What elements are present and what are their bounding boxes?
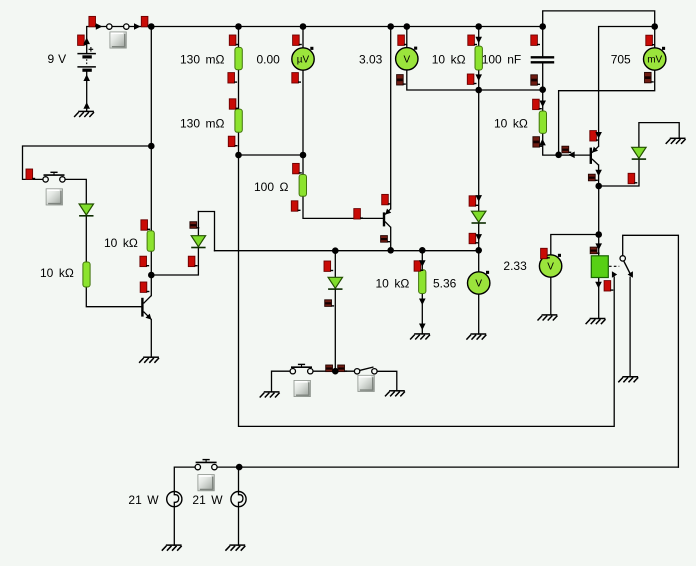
node: x=478.7 y=90	[475, 87, 482, 94]
wire: Q3 emitter down to node, loop right and up to diode D5	[599, 159, 639, 186]
transistor Q1 (NPN, bottom left)	[142, 296, 151, 320]
switch S5 contact b	[212, 464, 217, 469]
wire: bottom rail y=467 to right loop	[217, 466, 679, 468]
switch S4 (open toggle) lever	[359, 367, 373, 371]
red indicator (above R8)	[414, 261, 423, 271]
wire: Q2 emitter to bus	[390, 227, 392, 250]
wire: capacitor top feed	[542, 27, 544, 58]
svg-text:10 kΩ: 10 kΩ	[104, 236, 138, 250]
green load square (relay)	[591, 256, 608, 278]
red indicator (below R3)	[467, 74, 476, 84]
ground (lamp L2)	[225, 545, 245, 551]
current arrow (battery bottom)	[83, 74, 90, 81]
wire: top rail from battery to capacitor node	[87, 27, 543, 54]
wire: 100 ohm resistor down to Q2 base	[303, 155, 383, 218]
meter M1 microvoltmeter 0.00	[292, 47, 314, 70]
wire: microvoltmeter branch	[302, 27, 304, 156]
red indicator (diode D5 loop)	[628, 173, 637, 183]
red indicator (below D2)	[188, 256, 197, 266]
red indicator (below R1)	[228, 73, 237, 83]
wire: 5.36 resistor chain to ground	[421, 250, 423, 334]
svg-text:10 kΩ: 10 kΩ	[376, 276, 410, 290]
node: bottom switch junction	[332, 368, 339, 375]
wire: Q3 collector up to top-right node	[599, 27, 655, 147]
wire: green load square to ground	[598, 277, 600, 318]
switch S3 contact a	[290, 369, 295, 374]
ground (Q1 emitter)	[139, 357, 159, 363]
current arrow (Q3 collector top)	[595, 132, 602, 139]
ground (diode D5 loop)	[666, 138, 686, 144]
wire: long vertical x=238.5 down, across bottom, up to SPDT left contact	[239, 27, 615, 427]
node: bus x=335.3	[332, 247, 339, 254]
svg-text:130 mΩ: 130 mΩ	[180, 53, 225, 67]
red indicator (above Q2)	[382, 194, 391, 204]
wire: capacitor bottom through 10k resistor to Q3 base	[543, 63, 590, 156]
switch S5 contact a	[195, 464, 200, 469]
current arrow (Q3 emitter)	[595, 170, 602, 177]
red indicator (above V meter 2.33)	[541, 248, 550, 258]
svg-text:100 Ω: 100 Ω	[254, 180, 289, 194]
node: bus x=422.3	[419, 247, 426, 254]
svg-text:5.36: 5.36	[433, 276, 457, 290]
switch S4 button icon	[358, 375, 374, 391]
svg-text:0.00: 0.00	[257, 53, 281, 67]
SPDT switch: right contact	[628, 271, 633, 278]
node: lamp junction	[236, 464, 243, 471]
current arrow (rail after S1)	[134, 23, 141, 30]
switch S1 (closed, top) contact a	[107, 24, 112, 29]
ground (5.36 chain)	[410, 334, 430, 340]
dark indicator (above D2)	[190, 222, 199, 229]
wire: lamp1 branch	[174, 467, 195, 545]
wire: D1 through 10k resistor to Q1 base	[86, 216, 141, 307]
switch S5 button icon	[198, 475, 214, 491]
resistor R1 130 mOhm	[235, 47, 242, 69]
current arrow (Q3 base)	[568, 152, 575, 159]
red indicator (Q3 collector)	[590, 131, 599, 141]
wire: node down to green load square	[598, 186, 600, 256]
red indicator (above D3)	[469, 196, 478, 206]
meter M5 voltmeter 2.33	[539, 254, 561, 277]
svg-text:10 kΩ: 10 kΩ	[40, 266, 74, 280]
ground (lamp L1)	[162, 545, 182, 551]
wire: left ground to push-button S3	[272, 371, 291, 392]
current arrow (above green load)	[595, 243, 602, 250]
red indicator (below R6)	[140, 256, 149, 266]
red indicator (above Q1)	[140, 282, 149, 292]
switch S5 (push-to-make) bar	[196, 460, 217, 463]
current arrow (above R3)	[475, 37, 482, 44]
red indicator (above R6)	[141, 220, 150, 230]
resistor R2 130 mOhm	[235, 109, 242, 132]
switch S2 button icon	[46, 189, 62, 205]
wire: link at y=155	[239, 154, 304, 156]
svg-text:2.33: 2.33	[503, 259, 527, 273]
node: rail x=390.7	[387, 23, 394, 30]
svg-text:3.03: 3.03	[359, 53, 383, 67]
node: rail x=151	[148, 23, 155, 30]
node: capacitor bottom y=90	[539, 86, 546, 93]
red indicator (above R2)	[229, 99, 238, 109]
capacitor C1 100nF	[531, 57, 555, 62]
wire: diode D5 top to right ground	[639, 123, 679, 148]
dark indicator (below Q2)	[381, 236, 390, 243]
node: rail x=406.8	[404, 23, 411, 30]
red indicator (above 100 Ohm)	[293, 163, 302, 173]
meter M3 millivoltmeter 705	[644, 47, 666, 70]
red indicator (below D3)	[469, 233, 478, 243]
switch S2 (push-to-make) bar	[44, 172, 65, 175]
red indicator (below 100 Ohm)	[291, 201, 300, 211]
resistor R4 10 kOhm (below capacitor)	[539, 111, 546, 133]
diode D2	[191, 236, 205, 248]
red indicator (above mV meter)	[646, 35, 655, 45]
wire: top bypass over to mV meter, down to y=90 and left to node B	[543, 11, 655, 155]
resistor R7 10 kOhm (left chain)	[83, 262, 90, 287]
svg-text:µV: µV	[297, 55, 310, 66]
node: top right x=654.7	[651, 23, 658, 30]
current arrow (below R4)	[539, 139, 546, 146]
node: x=598.7 y=234.5	[595, 231, 602, 238]
ground (green load)	[586, 319, 606, 325]
diode D4	[328, 277, 342, 289]
wire: diode D4 chain from bus to bottom switch junction	[334, 251, 336, 372]
lamp L2 21W	[231, 492, 246, 507]
red indicator (S2 left)	[26, 169, 35, 179]
current arrow (below D3)	[475, 234, 482, 241]
switch S4 contact a	[354, 369, 359, 374]
switch S3 button icon	[294, 380, 310, 396]
red indicator (above capacitor)	[531, 35, 540, 45]
node: rail x=303	[300, 23, 307, 30]
dark indicator (below mV meter)	[645, 72, 654, 82]
wire: S3 to S4 through junction	[313, 370, 354, 372]
wire: Q2 collector feed from rail	[390, 27, 392, 209]
wire: middle bus y=250.7	[215, 250, 479, 252]
ground (SPDT right contact)	[618, 377, 638, 383]
SPDT switch: lever	[624, 261, 631, 274]
wire: Q1 emitter to ground	[150, 320, 152, 357]
SPDT switch: left contact	[612, 271, 617, 278]
switch S3 (push-to-make) bar	[291, 364, 312, 367]
red indicator (above D4)	[324, 261, 333, 271]
svg-text:705: 705	[611, 53, 631, 67]
svg-text:V: V	[475, 279, 482, 290]
SPDT switch: pivot	[620, 256, 625, 261]
dark indicator (above green load)	[590, 247, 599, 254]
current arrow (above R8 ground)	[419, 324, 426, 331]
svg-text:V: V	[403, 54, 410, 65]
wire: SPDT common loop to bottom right	[623, 235, 679, 467]
node: rail x=542.7	[539, 23, 546, 30]
dark indicator (right of bottom junction)	[338, 365, 347, 372]
meter M4 voltmeter 5.36 branch	[468, 271, 490, 294]
dark indicator (below D4)	[325, 300, 334, 307]
svg-text:mV: mV	[647, 55, 662, 66]
red indicator (below green load)	[604, 281, 613, 291]
diode D5	[632, 147, 646, 159]
wire: SPDT right contact to ground	[629, 277, 631, 377]
current arrow (below R8)	[419, 299, 426, 306]
node: rail x=238.5	[235, 23, 242, 30]
red indicator (battery left)	[78, 35, 87, 45]
svg-text:10 kΩ: 10 kΩ	[432, 53, 466, 67]
red indicator (before junction x=151)	[141, 16, 150, 26]
node: bus x=390.7	[387, 247, 394, 254]
resistor R3 10 kOhm (top)	[475, 46, 482, 70]
resistor R5 100 Ohm	[299, 175, 306, 197]
red indicator (above R3)	[468, 35, 477, 45]
current arrow (battery top)	[83, 38, 90, 45]
ground (S4 right)	[385, 391, 405, 397]
ground (voltmeter M4)	[466, 334, 486, 340]
battery B1 9V	[77, 47, 96, 70]
svg-text:100 nF: 100 nF	[482, 53, 522, 67]
node: rail x=478.7	[475, 23, 482, 30]
red indicator (above R1)	[229, 35, 238, 45]
node: y=155 x=238.5	[235, 152, 242, 159]
dark indicator (left of bottom junction)	[326, 365, 335, 372]
red indicator (above V meter 3.03)	[398, 35, 407, 45]
switch S3 contact b	[308, 369, 313, 374]
svg-text:V: V	[547, 262, 554, 273]
node: x=598.7 y=186	[595, 183, 602, 190]
meter M2 voltmeter 3.03	[396, 47, 418, 70]
wire: lamp2 branch	[238, 467, 240, 545]
node: y=155 x=303	[300, 152, 307, 159]
dark indicator (below Q3 emitter)	[588, 174, 597, 181]
wire: x=478 vertical through diode D3 and voltmeter to ground	[478, 90, 480, 334]
svg-text:130 mΩ: 130 mΩ	[180, 116, 225, 130]
current arrow (above R4)	[539, 101, 546, 108]
node: bus x=478.7	[475, 247, 482, 254]
switch S1 button icon	[110, 32, 126, 48]
wire: battery bottom to ground	[86, 71, 88, 111]
red indicator (Q2 base wire)	[354, 209, 363, 219]
switch S1 contact b	[124, 24, 129, 29]
wire: 2.33 voltmeter branch	[551, 235, 599, 315]
wire: S2 to diode D1	[65, 179, 86, 204]
node: x=151 y=275	[148, 272, 155, 279]
dark indicator (right of node B)	[562, 146, 571, 153]
dark indicator (below R4)	[533, 137, 542, 147]
node: left loop y=146	[148, 143, 155, 150]
svg-text:10 kΩ: 10 kΩ	[494, 116, 528, 130]
resistor R8 10 kOhm (5.36 chain)	[419, 270, 426, 294]
red indicator (battery top)	[89, 16, 98, 26]
red indicator (above uV meter)	[293, 35, 302, 45]
diode D3	[472, 211, 486, 223]
current arrow (below R3)	[475, 74, 482, 81]
wire: S4 right to ground	[377, 371, 397, 391]
node B: x=558.6 y=154.8	[555, 152, 562, 159]
wire: 3.03 voltmeter branch and y=90 link	[407, 27, 543, 91]
wire: left vertical x=151 from rail to Q1 collector	[150, 27, 152, 296]
resistor R6 10 kOhm (x=151)	[147, 231, 154, 252]
transistor Q3 (top right)	[591, 146, 599, 165]
red indicator (above R4)	[533, 99, 542, 109]
red indicator (below uV meter)	[292, 73, 301, 83]
dark indicator (below capacitor)	[531, 75, 540, 85]
ground (S3 left)	[260, 392, 280, 398]
switch S2 contact b	[60, 177, 65, 182]
ground (battery)	[74, 111, 94, 117]
wire: bus hook up to diode D2	[198, 212, 214, 251]
current arrow (rail before S1)	[96, 23, 103, 30]
current arrow (below green load)	[595, 282, 602, 289]
SPDT switch: dashed link	[609, 265, 619, 267]
transistor Q2 (middle)	[384, 209, 391, 228]
current arrow (above battery ground)	[83, 102, 90, 109]
switch S4 contact b	[372, 369, 377, 374]
ground (voltmeter M5)	[538, 315, 558, 321]
svg-text:21 W: 21 W	[192, 493, 223, 507]
current arrow (above R8)	[419, 260, 426, 267]
switch S2 contact a	[43, 177, 48, 182]
lamp L1 21W	[167, 492, 182, 507]
wire: diode D2 chain down to junction at x=151	[151, 212, 198, 276]
dark indicator (below V meter 3.03)	[397, 75, 406, 85]
current arrow (above D3)	[475, 195, 482, 202]
wire: left loop at y=146 to push-button S2	[23, 146, 152, 179]
red indicator (below R2)	[228, 136, 237, 146]
svg-text:9 V: 9 V	[48, 52, 67, 66]
diode D1	[79, 204, 93, 216]
wire: 10k resistor chain at x=478 top	[478, 27, 480, 91]
svg-text:21 W: 21 W	[128, 493, 159, 507]
